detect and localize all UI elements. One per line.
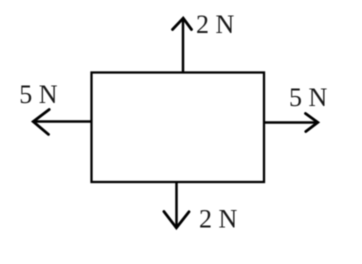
force arrow right (5 N) wire bbox=[264, 121, 316, 124]
svg-text:5 N: 5 N bbox=[289, 83, 328, 112]
arrowhead down bbox=[164, 212, 189, 228]
arrowhead up bbox=[173, 18, 192, 29]
box (rigid body) bbox=[92, 73, 265, 183]
svg-text:5 N: 5 N bbox=[19, 80, 58, 109]
arrowhead left bbox=[33, 110, 49, 135]
force arrow down (2 N) wire bbox=[175, 182, 178, 227]
force arrow up (2 N) wire bbox=[182, 19, 185, 72]
svg-text:2 N: 2 N bbox=[199, 205, 238, 234]
svg-text:2 N: 2 N bbox=[196, 10, 235, 39]
force arrow left (5 N) wire bbox=[34, 120, 91, 123]
arrowhead right bbox=[306, 114, 318, 132]
